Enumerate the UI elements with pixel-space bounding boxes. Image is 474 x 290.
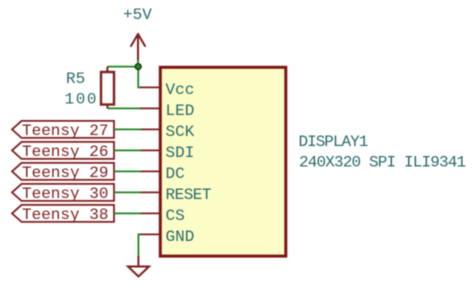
global label Teensy 30 xyxy=(12,184,114,203)
pin RESET xyxy=(140,186,211,204)
junction xyxy=(135,64,141,70)
wire junction down to Vcc pin xyxy=(138,67,141,88)
global label Teensy 26 xyxy=(12,142,114,161)
wire Teensy 29 to DC xyxy=(114,170,141,172)
svg-text:Teensy 26: Teensy 26 xyxy=(22,143,108,161)
svg-text:DISPLAY1: DISPLAY1 xyxy=(299,133,368,151)
svg-text:R5: R5 xyxy=(66,70,85,88)
wire junction to resistor top xyxy=(107,66,138,68)
pin SCK xyxy=(140,123,195,141)
wire GND pin to ground xyxy=(138,234,140,256)
wire Teensy 38 to CS xyxy=(114,212,141,214)
global label Teensy 27 xyxy=(12,121,114,140)
pin SDI xyxy=(140,144,194,162)
svg-text:Teensy 30: Teensy 30 xyxy=(22,185,108,203)
display DISPLAY1 body xyxy=(160,67,285,256)
svg-text:GND: GND xyxy=(166,228,195,246)
svg-text:CS: CS xyxy=(166,207,185,225)
svg-text:DC: DC xyxy=(166,165,185,183)
pin CS xyxy=(140,207,185,225)
svg-text:RESET: RESET xyxy=(166,186,212,204)
resistor R5 xyxy=(101,67,114,109)
wire Teensy 30 to RESET xyxy=(114,191,141,193)
global label Teensy 29 xyxy=(12,163,114,182)
wire Teensy 26 to SDI xyxy=(114,149,141,151)
svg-text:100: 100 xyxy=(65,91,99,109)
wire Teensy 27 to SCK xyxy=(114,128,141,130)
svg-text:LED: LED xyxy=(166,102,195,120)
pin LED xyxy=(140,102,194,120)
pin GND xyxy=(140,228,194,246)
wire resistor bottom to LED pin xyxy=(107,107,141,109)
global label Teensy 38 xyxy=(12,205,114,224)
svg-text:Vcc: Vcc xyxy=(166,81,195,99)
wire +5V stem to junction xyxy=(137,60,139,67)
svg-text:+5V: +5V xyxy=(123,6,152,24)
svg-text:Teensy 27: Teensy 27 xyxy=(22,122,108,140)
svg-text:SDI: SDI xyxy=(166,144,195,162)
svg-text:Teensy 29: Teensy 29 xyxy=(22,164,108,182)
ground xyxy=(128,256,149,277)
svg-text:240X320 SPI ILI9341: 240X320 SPI ILI9341 xyxy=(299,153,466,171)
power +5V symbol xyxy=(131,34,145,60)
pin Vcc xyxy=(140,81,194,99)
pin DC xyxy=(140,165,185,183)
svg-text:Teensy 38: Teensy 38 xyxy=(22,206,108,224)
svg-text:SCK: SCK xyxy=(166,123,195,141)
